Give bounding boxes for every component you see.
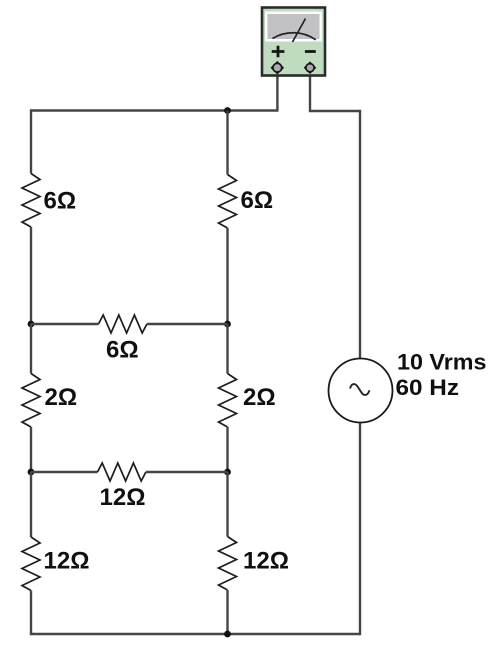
label 2ohm middle — [243, 384, 276, 411]
wire: left rail top segment — [30, 109, 32, 173]
junction node D (middle, row 2) — [224, 469, 231, 476]
svg-text:6Ω: 6Ω — [106, 337, 139, 364]
label 6ohm left-top — [44, 188, 77, 215]
resistor 2ohm middle — [219, 374, 237, 428]
wire: left rail between 2ohm and node C — [30, 427, 32, 472]
wire: row 1 left part (node A to 6ohm bridge) — [31, 323, 99, 325]
junction node at top of middle rail — [224, 107, 231, 114]
svg-text:12Ω: 12Ω — [100, 484, 146, 511]
wire: left rail between node C and 12ohm — [30, 472, 32, 537]
wire: middle rail between 2ohm and node D — [226, 427, 228, 472]
junction node at bottom of middle rail — [224, 631, 231, 638]
resistor 12ohm middle-bottom — [219, 537, 237, 591]
label 12ohm left-bottom — [44, 548, 90, 575]
wire: row 2 right part (12ohm bridge to node D) — [146, 471, 228, 473]
wire: middle rail bottom segment — [226, 590, 228, 634]
label 10 Vrms — [397, 350, 487, 375]
svg-text:6Ω: 6Ω — [241, 187, 274, 214]
svg-text:2Ω: 2Ω — [243, 384, 276, 411]
AC source V1 — [329, 359, 393, 423]
voltmeter + terminal — [272, 62, 284, 74]
svg-text:10 Vrms: 10 Vrms — [397, 350, 487, 375]
label 60 Hz — [396, 375, 460, 400]
wire: meter - terminal lead down and right to source rail — [310, 72, 360, 111]
svg-text:2Ω: 2Ω — [45, 384, 78, 411]
resistor 12ohm bridge (row 2) — [98, 463, 146, 481]
resistor 2ohm left — [22, 374, 40, 428]
svg-text:12Ω: 12Ω — [44, 548, 90, 575]
voltmeter M1 body — [262, 8, 325, 76]
resistor 6ohm bridge (row 1) — [99, 315, 147, 333]
wire: right rail from AC source bottom to bottom bus — [359, 423, 361, 636]
wire: meter + terminal lead down to top bus — [276, 72, 278, 112]
wire: right rail from meter bus to AC source top — [359, 110, 361, 359]
wire: bottom bus — [30, 633, 360, 635]
wire: left rail between node A and 2ohm — [30, 324, 32, 374]
label 2ohm left — [45, 384, 78, 411]
junction node B (middle, row 1) — [224, 321, 231, 328]
wire: top bus from left rail to meter + terminal — [31, 109, 277, 111]
wire: middle rail between 6ohm and node B — [226, 228, 228, 324]
wire: middle rail between node D and 12ohm — [226, 472, 228, 537]
label 12ohm bridge — [100, 484, 146, 511]
voltmeter plus sign — [272, 46, 285, 57]
label 6ohm bridge — [106, 337, 139, 364]
svg-text:6Ω: 6Ω — [44, 188, 77, 215]
wire: left rail bottom segment — [30, 591, 32, 635]
junction node A (left, row 1) — [28, 321, 35, 328]
wire: row 1 right part (6ohm bridge to node B) — [147, 323, 228, 325]
svg-text:60 Hz: 60 Hz — [396, 375, 460, 400]
resistor 6ohm middle-top — [219, 175, 237, 229]
voltmeter - terminal — [305, 62, 316, 73]
wire: middle rail between node B and 2ohm — [226, 324, 228, 374]
resistor 12ohm left-bottom — [22, 537, 40, 591]
junction node C (left, row 2) — [28, 469, 35, 476]
resistor 6ohm left-top — [22, 174, 40, 228]
label 6ohm middle-top — [241, 187, 274, 214]
voltmeter minus sign — [305, 50, 316, 53]
wire: middle rail top segment — [226, 111, 228, 175]
label 12ohm middle-bottom — [243, 548, 289, 575]
wire: left rail between 6ohm and node A — [30, 227, 32, 324]
svg-text:12Ω: 12Ω — [243, 548, 289, 575]
wire: row 2 left part (node C to 12ohm bridge) — [31, 471, 98, 473]
